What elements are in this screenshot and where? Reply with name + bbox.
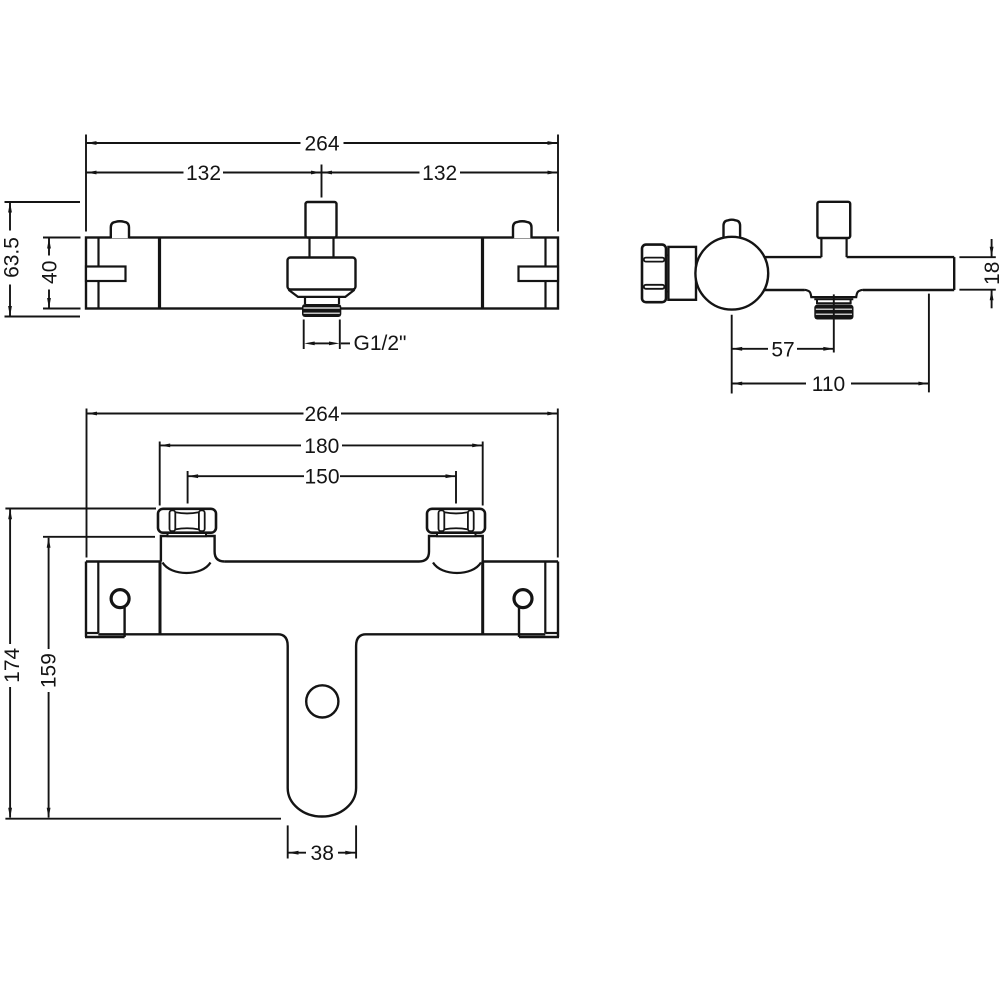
right wall tab bbox=[519, 267, 559, 282]
right screw slot bbox=[518, 608, 520, 637]
left union nut bbox=[158, 509, 216, 533]
outlet centerline bbox=[833, 294, 835, 352]
right body joint bbox=[481, 562, 484, 635]
ext 264 left bbox=[86, 409, 88, 558]
dim 132 right bbox=[322, 172, 420, 174]
dim 159 bbox=[48, 538, 50, 649]
left body joint bbox=[159, 562, 162, 635]
ext 40 top bbox=[43, 237, 81, 239]
left elbow inner edge bbox=[97, 238, 99, 309]
cartridge housing bbox=[288, 258, 356, 290]
ext G1/2 bbox=[303, 320, 305, 350]
right step bbox=[545, 632, 559, 634]
dim 18 bbox=[991, 239, 993, 257]
ext 180 bbox=[159, 442, 161, 506]
right plate bottom bbox=[519, 636, 559, 638]
outlet taper bbox=[289, 290, 355, 297]
dim 174 bbox=[9, 510, 11, 645]
outlet collar bbox=[816, 299, 818, 303]
ext 264 right bbox=[557, 409, 559, 558]
valve body bar bbox=[86, 238, 558, 309]
ext 38 bbox=[287, 825, 289, 858]
right boss underside arc bbox=[433, 563, 481, 574]
ext 18 bottom bbox=[959, 289, 995, 291]
nut-to-body joint lines bbox=[666, 254, 668, 256]
outlet flare bbox=[805, 290, 863, 297]
dim 264 bbox=[86, 142, 301, 144]
svg-text:132: 132 bbox=[422, 162, 457, 185]
left inner edge bbox=[97, 562, 99, 634]
right body joint bbox=[481, 238, 484, 309]
top port stem bbox=[820, 238, 822, 257]
right cap bbox=[513, 221, 532, 238]
svg-text:264: 264 bbox=[304, 133, 339, 156]
bar bottom line bbox=[98, 633, 278, 635]
dim 180 bbox=[160, 444, 301, 446]
knob stub bbox=[724, 220, 741, 238]
outlet thread bbox=[814, 305, 853, 320]
body bar top line bbox=[760, 256, 821, 258]
center stem bbox=[308, 238, 310, 258]
left screw slot bbox=[123, 608, 125, 637]
top port block bbox=[817, 202, 850, 238]
left plate bottom bbox=[85, 636, 125, 638]
right union nut bbox=[427, 509, 485, 533]
svg-text:40: 40 bbox=[38, 261, 61, 284]
left body joint bbox=[158, 238, 161, 309]
center top port block bbox=[306, 202, 337, 238]
left screw hole bbox=[111, 590, 129, 608]
dim 57 bbox=[732, 348, 768, 350]
temperature knob bbox=[695, 237, 768, 310]
left washer bbox=[168, 533, 207, 537]
dim 264 bottom bbox=[87, 413, 304, 415]
svg-text:132: 132 bbox=[186, 162, 221, 185]
dim 63.5 bbox=[9, 203, 11, 231]
spout leg bbox=[278, 634, 366, 816]
dim 150 bbox=[188, 475, 304, 477]
dim 110 bbox=[732, 383, 806, 385]
left wall tab bbox=[86, 267, 126, 282]
extension line right bbox=[557, 135, 559, 232]
svg-text:18: 18 bbox=[981, 262, 1000, 285]
svg-text:150: 150 bbox=[304, 466, 339, 489]
outlet lip bbox=[814, 298, 853, 300]
leg hole bbox=[306, 685, 338, 717]
ext 63.5 bottom bbox=[5, 316, 81, 318]
ext 159 top bbox=[43, 536, 155, 538]
dim G1/2 bbox=[314, 342, 330, 344]
right outer edge bbox=[557, 562, 559, 638]
inlet connector block bbox=[668, 247, 696, 300]
knob centerline bbox=[731, 315, 733, 394]
ext bottom shared bbox=[5, 818, 281, 820]
ext 150 bbox=[187, 471, 189, 504]
dim 132 left bbox=[86, 172, 184, 174]
right screw hole bbox=[514, 590, 532, 608]
ext 18 top bbox=[959, 256, 995, 258]
svg-text:174: 174 bbox=[1, 647, 24, 682]
hex nut bbox=[642, 245, 666, 303]
right extension bbox=[928, 294, 930, 393]
svg-text:G1/2": G1/2" bbox=[354, 332, 407, 355]
extension line left bbox=[85, 135, 87, 232]
bar top line bbox=[86, 560, 161, 562]
svg-text:57: 57 bbox=[771, 338, 794, 361]
svg-text:63.5: 63.5 bbox=[0, 237, 23, 278]
svg-text:38: 38 bbox=[311, 842, 334, 865]
center tick bbox=[321, 165, 323, 198]
outlet thread G1/2 bbox=[302, 304, 341, 317]
outlet collar bbox=[304, 297, 306, 304]
left cap bbox=[111, 221, 129, 238]
svg-text:159: 159 bbox=[38, 653, 61, 688]
svg-text:180: 180 bbox=[304, 435, 339, 458]
right elbow inner edge bbox=[544, 238, 546, 309]
body bar right edge bbox=[953, 257, 955, 290]
svg-text:110: 110 bbox=[812, 373, 845, 396]
svg-text:264: 264 bbox=[304, 403, 339, 426]
left step bbox=[85, 632, 98, 634]
right inner edge bbox=[544, 562, 546, 634]
right washer bbox=[437, 533, 476, 537]
left boss underside arc bbox=[163, 563, 211, 574]
ext 40 bottom bbox=[43, 308, 81, 310]
ext 174 top bbox=[5, 508, 156, 510]
dim 40 bbox=[48, 238, 50, 255]
ext 63.5 top bbox=[5, 201, 81, 203]
left inlet boss bbox=[161, 536, 225, 562]
right inlet boss bbox=[419, 536, 483, 562]
dim 38 bbox=[288, 852, 306, 854]
body bar bottom line bbox=[760, 289, 805, 291]
left outer edge bbox=[85, 562, 87, 638]
